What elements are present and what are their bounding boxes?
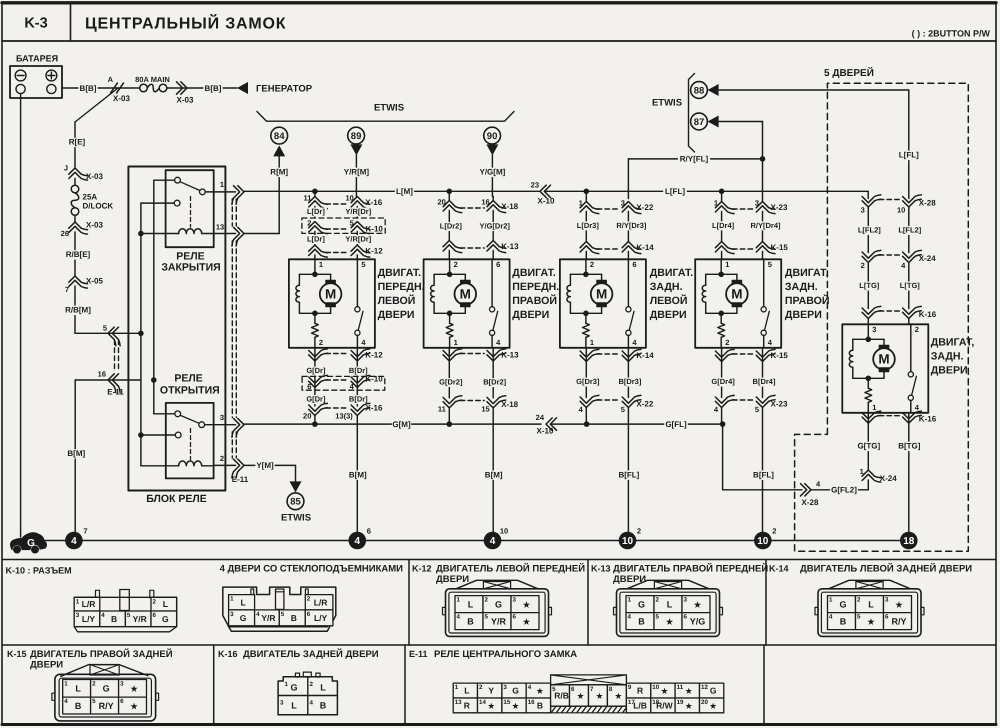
node 84 <box>271 127 288 144</box>
svg-text:ДВИГАТЕЛЬ ЛЕВОЙ ПЕРЕДНЕЙ: ДВИГАТЕЛЬ ЛЕВОЙ ПЕРЕДНЕЙ <box>436 563 585 575</box>
K-15 connector drawing <box>61 665 148 677</box>
svg-text:R/Y[FL]: R/Y[FL] <box>680 155 709 164</box>
node 88 <box>691 82 708 99</box>
page border right <box>995 41 997 725</box>
connector E-11 pin 2 <box>214 464 236 466</box>
connector K-16 top <box>862 311 881 319</box>
svg-text:R[E]: R[E] <box>69 138 86 147</box>
wire label R[M] <box>270 168 289 178</box>
svg-text:ГЕНЕРАТОР: ГЕНЕРАТОР <box>256 84 313 95</box>
svg-text:1: 1 <box>725 260 729 269</box>
svg-text:L/B: L/B <box>633 700 647 710</box>
fuse 25A D/LOCK <box>71 185 79 193</box>
svg-text:G[Dr3]: G[Dr3] <box>576 377 600 386</box>
svg-text:ДВИГАТЕЛЬ ЗАДНЕЙ ДВЕРИ: ДВИГАТЕЛЬ ЗАДНЕЙ ДВЕРИ <box>243 648 379 660</box>
page border left <box>1 41 3 725</box>
svg-text:3: 3 <box>885 597 889 604</box>
wire labels G[Dr] B[Dr] upper <box>314 361 316 376</box>
svg-text:1: 1 <box>579 199 583 208</box>
svg-text:5: 5 <box>127 612 131 619</box>
svg-text:3: 3 <box>120 681 124 688</box>
relay opening switch <box>154 413 175 415</box>
svg-text:L: L <box>240 597 245 607</box>
wire G[FL] bus <box>551 423 723 425</box>
svg-text:X-16: X-16 <box>366 404 383 413</box>
svg-text:L[FL]: L[FL] <box>665 187 685 196</box>
svg-text:K-12: K-12 <box>412 564 432 574</box>
wire labels L[TG] <box>867 263 869 309</box>
connector X-18 bottom <box>443 400 462 408</box>
node 89 <box>348 127 365 144</box>
connector K-15 bottom <box>721 348 723 362</box>
svg-text:ДВИГАТЕЛЬ ПРАВОЙ ЗАДНЕЙ: ДВИГАТЕЛЬ ПРАВОЙ ЗАДНЕЙ <box>30 648 173 660</box>
wire labels G[Dr3] B[Dr3] <box>585 362 587 398</box>
fuse 80A MAIN <box>140 84 148 92</box>
svg-text:5: 5 <box>656 614 660 621</box>
svg-text:L: L <box>468 599 474 609</box>
svg-text:84: 84 <box>274 131 285 142</box>
svg-text:K-10: K-10 <box>366 225 384 234</box>
wire motor3 left to G[FL] <box>585 408 587 425</box>
E-11 connector drawing <box>551 675 627 685</box>
svg-text:ЛЕВОЙ: ЛЕВОЙ <box>650 294 688 307</box>
connector X-03 (right of fuse) <box>181 82 187 94</box>
connector X-24 pin 1 <box>862 470 881 478</box>
svg-text:R/Y: R/Y <box>891 616 906 626</box>
connector K-13 top <box>443 241 462 249</box>
connector K-10 box upper <box>302 218 385 233</box>
wire label R/B[E] <box>74 246 76 262</box>
wire L[FL] bus <box>545 190 868 192</box>
connector K-15 top <box>715 242 734 250</box>
connector K-12 top <box>309 245 328 253</box>
svg-text:ETWIS: ETWIS <box>281 513 311 524</box>
svg-text:ЗАДН.: ЗАДН. <box>650 281 683 293</box>
svg-text:3: 3 <box>220 413 224 422</box>
svg-text:4: 4 <box>528 684 532 691</box>
svg-text:B[M]: B[M] <box>485 470 503 479</box>
svg-text:3: 3 <box>280 700 284 707</box>
svg-text:★: ★ <box>577 692 584 701</box>
svg-text:11: 11 <box>677 684 684 691</box>
svg-text:ДВИГАТ.: ДВИГАТ. <box>650 267 694 279</box>
K-16 connector drawing <box>295 673 299 677</box>
svg-text:24: 24 <box>536 413 545 422</box>
svg-text:РЕЛЕ ЦЕНТРАЛЬНОГО ЗАМКА: РЕЛЕ ЦЕНТРАЛЬНОГО ЗАМКА <box>434 649 577 660</box>
svg-text:23: 23 <box>531 180 539 189</box>
svg-text:B: B <box>75 701 82 711</box>
svg-text:B[M]: B[M] <box>67 449 85 458</box>
title block frame <box>2 1 996 4</box>
connector E-11 pin 1 <box>214 191 236 193</box>
svg-text:★: ★ <box>895 600 903 609</box>
svg-text:2: 2 <box>637 527 641 536</box>
svg-text:89: 89 <box>351 131 362 142</box>
svg-text:88: 88 <box>694 85 705 96</box>
wire B[FL] motor4 to ground <box>762 408 764 532</box>
svg-text:ДВИГАТ.: ДВИГАТ. <box>785 267 829 279</box>
svg-text:M: M <box>325 286 336 301</box>
wire R/B[M] to relay block pin 5 <box>75 332 141 334</box>
svg-text:L[FL]: L[FL] <box>899 151 919 160</box>
svg-text:БАТАРЕЯ: БАТАРЕЯ <box>16 54 58 64</box>
svg-text:ПЕРЕДН.: ПЕРЕДН. <box>512 281 559 293</box>
svg-text:K-12: K-12 <box>365 247 383 256</box>
connector E-11 dashes left <box>114 340 116 371</box>
svg-text:B[Dr]: B[Dr] <box>349 395 368 404</box>
wire B[B] battery to fuse <box>62 87 140 89</box>
svg-text:L: L <box>667 599 673 609</box>
svg-text:K-10: K-10 <box>365 375 383 384</box>
svg-text:E-11: E-11 <box>409 649 428 659</box>
svg-text:5: 5 <box>857 614 861 621</box>
svg-text:K-3: K-3 <box>24 16 47 32</box>
ground 10-2 right <box>754 532 772 550</box>
svg-text:ДВИГАТ.: ДВИГАТ. <box>378 267 422 279</box>
relay closing switch <box>154 179 175 181</box>
wire labels L[Dr3] R/Y[Dr3] <box>585 212 587 242</box>
svg-text:R/W: R/W <box>656 700 674 710</box>
connector E-11 pin 16 (chevron) <box>108 374 116 393</box>
svg-text:★: ★ <box>615 692 622 701</box>
svg-text:B[M]: B[M] <box>349 470 367 479</box>
svg-text:J: J <box>64 164 68 173</box>
connector K-13 bottom <box>448 348 450 361</box>
svg-text:3: 3 <box>684 597 688 604</box>
svg-text:10: 10 <box>652 684 659 691</box>
svg-text:1: 1 <box>454 338 458 347</box>
ground 4-6 <box>349 532 367 550</box>
svg-text:1: 1 <box>714 199 718 208</box>
svg-text:R/Y: R/Y <box>99 701 114 711</box>
wire labels G[Dr4] B[Dr4] <box>721 362 723 398</box>
svg-text:L/Y: L/Y <box>314 613 328 623</box>
svg-text:R: R <box>637 686 643 696</box>
svg-text:X-22: X-22 <box>636 400 653 409</box>
svg-text:6: 6 <box>513 614 517 621</box>
connector E-11 dashes right 1 <box>231 199 233 226</box>
K-13 connector drawing <box>627 580 709 589</box>
svg-text:16: 16 <box>481 198 489 207</box>
svg-text:ДВЕРИ: ДВЕРИ <box>931 364 968 376</box>
svg-text:2: 2 <box>307 218 311 227</box>
wire G[TG] <box>867 423 869 470</box>
svg-text:2: 2 <box>861 261 865 270</box>
svg-text:★: ★ <box>666 617 674 626</box>
svg-text:ПЕРЕДН.: ПЕРЕДН. <box>378 281 425 293</box>
svg-text:K-16: K-16 <box>218 649 238 659</box>
svg-text:G[FL]: G[FL] <box>665 420 687 429</box>
svg-text:Y/R[Dr]: Y/R[Dr] <box>345 207 371 216</box>
svg-text:★: ★ <box>537 687 544 696</box>
K-10 connector view B <box>223 587 336 631</box>
wire motor1 left drop <box>314 191 316 196</box>
svg-text:1: 1 <box>590 338 594 347</box>
wire G[M] bus <box>244 423 541 425</box>
svg-text:L[Dr2]: L[Dr2] <box>440 222 463 231</box>
svg-text:БЛОК РЕЛЕ: БЛОК РЕЛЕ <box>146 493 207 505</box>
svg-text:B[Dr4]: B[Dr4] <box>753 377 776 386</box>
svg-text:ДВЕРИ: ДВЕРИ <box>436 574 469 585</box>
svg-text:10: 10 <box>345 194 353 203</box>
svg-text:X-28: X-28 <box>802 498 819 507</box>
svg-text:4: 4 <box>64 698 68 705</box>
svg-text:1: 1 <box>872 403 876 412</box>
svg-text:K-14: K-14 <box>636 351 654 360</box>
relay closing control contact <box>141 202 174 204</box>
svg-text:РЕЛЕ: РЕЛЕ <box>174 373 202 385</box>
svg-text:16: 16 <box>528 699 535 706</box>
svg-text:L: L <box>464 686 469 696</box>
svg-text:L/Y: L/Y <box>82 614 96 624</box>
relay opening control contact <box>141 434 175 436</box>
svg-text:2: 2 <box>307 596 311 603</box>
svg-text:4: 4 <box>457 614 461 621</box>
svg-text:2: 2 <box>220 454 224 463</box>
connector X-16 top <box>309 197 328 205</box>
svg-text:6: 6 <box>367 527 371 536</box>
svg-text:4: 4 <box>310 700 314 707</box>
relay closing coil <box>141 233 179 235</box>
net common vertical (x141) <box>140 203 142 466</box>
svg-text:K-15: K-15 <box>771 243 789 252</box>
svg-text:X-18: X-18 <box>501 202 518 211</box>
svg-text:K-15: K-15 <box>771 351 789 360</box>
svg-text:5: 5 <box>768 260 772 269</box>
page border bottom <box>2 723 996 726</box>
svg-text:2: 2 <box>310 681 314 688</box>
relay opening plunger (dashed) <box>190 429 192 460</box>
svg-text:5 ДВЕРЕЙ: 5 ДВЕРЕЙ <box>824 66 874 79</box>
arrow from 90 <box>491 143 493 146</box>
svg-text:X-22: X-22 <box>636 203 653 212</box>
K-14 connector drawing <box>829 580 911 589</box>
svg-text:★: ★ <box>523 617 531 626</box>
svg-text:X-24: X-24 <box>880 474 897 483</box>
wire motor2 left drop <box>448 191 450 200</box>
svg-text:B: B <box>111 614 117 624</box>
relay opening box <box>166 403 214 479</box>
svg-text:G[TG]: G[TG] <box>857 442 880 451</box>
svg-text:12: 12 <box>701 684 708 691</box>
svg-text:Y/G[M]: Y/G[M] <box>480 168 506 177</box>
svg-text:ДВЕРИ: ДВЕРИ <box>650 309 687 321</box>
svg-text:X-05: X-05 <box>86 277 103 286</box>
svg-text:6: 6 <box>120 698 124 705</box>
svg-text:14: 14 <box>479 699 486 706</box>
wire labels L[Dr4] R/Y[Dr4] <box>721 212 723 242</box>
svg-text:X-03: X-03 <box>86 221 103 230</box>
svg-text:2: 2 <box>590 260 594 269</box>
svg-text:Y: Y <box>488 686 494 696</box>
svg-text:L: L <box>291 701 297 711</box>
svg-text:18: 18 <box>903 536 915 547</box>
connector X-18 top <box>443 201 462 209</box>
svg-text:L/R: L/R <box>314 597 328 607</box>
svg-text:13: 13 <box>455 699 462 706</box>
svg-text:L[TG]: L[TG] <box>900 281 920 290</box>
svg-text:★: ★ <box>694 600 702 609</box>
svg-text:Y/G[Dr2]: Y/G[Dr2] <box>479 222 510 231</box>
svg-text:G[Dr]: G[Dr] <box>306 366 326 375</box>
svg-text:2: 2 <box>725 338 729 347</box>
svg-text:2: 2 <box>92 681 96 688</box>
svg-text:A: A <box>108 75 114 84</box>
wire B[M] motor1 to ground <box>356 416 358 532</box>
K-10 connector view A <box>96 590 100 598</box>
svg-text:★: ★ <box>596 692 603 701</box>
wire R/Y[FL] <box>628 158 762 160</box>
svg-text:X-10: X-10 <box>537 427 554 436</box>
net switch vertical (x154) <box>153 180 155 414</box>
svg-text:87: 87 <box>694 117 705 128</box>
svg-text:R/B: R/B <box>554 691 569 701</box>
svg-text:( ) : 2BUTTON P/W: ( ) : 2BUTTON P/W <box>912 29 991 39</box>
svg-text:Y/R[M]: Y/R[M] <box>344 168 370 177</box>
svg-text:G: G <box>240 613 247 623</box>
svg-text:★: ★ <box>523 600 531 609</box>
svg-text:G: G <box>638 599 645 609</box>
wire motor3 left drop <box>585 191 587 201</box>
svg-text:ПРАВОЙ: ПРАВОЙ <box>785 294 830 307</box>
svg-text:Y/R: Y/R <box>133 614 147 624</box>
motor M2 front right door <box>424 259 510 348</box>
wire labels L[Dr] Y/R[Dr] lower <box>314 232 316 246</box>
svg-text:K-14: K-14 <box>636 243 654 252</box>
svg-text:B[FL]: B[FL] <box>753 470 774 479</box>
svg-text:25A: 25A <box>83 193 98 202</box>
wire B[M] motor2 to ground <box>492 408 494 532</box>
svg-text:3: 3 <box>861 206 865 215</box>
svg-text:ЛЕВОЙ: ЛЕВОЙ <box>378 294 416 307</box>
svg-text:B: B <box>840 616 847 626</box>
wire branch diagonal to R[E] <box>75 88 118 122</box>
svg-text:16: 16 <box>98 369 106 378</box>
svg-text:ДВЕРИ: ДВЕРИ <box>30 660 63 671</box>
svg-text:★: ★ <box>867 617 875 626</box>
connector X-03 pin A (slashes) <box>111 83 118 93</box>
svg-text:L/R: L/R <box>82 599 96 609</box>
svg-text:L: L <box>75 684 81 694</box>
ground 10-2 left <box>619 532 637 550</box>
wire label Y/R[M] <box>342 168 370 178</box>
svg-text:R/Y[Dr4]: R/Y[Dr4] <box>750 221 781 230</box>
svg-text:1: 1 <box>285 681 289 688</box>
svg-text:Y/R[Dr]: Y/R[Dr] <box>345 235 371 244</box>
svg-text:B: B <box>320 701 327 711</box>
svg-text:L[Dr]: L[Dr] <box>307 235 325 244</box>
svg-text:2: 2 <box>485 597 489 604</box>
svg-text:M: M <box>731 286 742 301</box>
car body ground icon <box>11 533 47 550</box>
connector E-11 dashes right 2 <box>231 241 233 418</box>
svg-text:X-03: X-03 <box>113 94 130 103</box>
battery BATT <box>10 66 62 98</box>
svg-text:L: L <box>868 599 874 609</box>
svg-text:19: 19 <box>677 699 684 706</box>
svg-text:★: ★ <box>710 701 717 710</box>
wire labels L[FL2] <box>867 207 869 253</box>
svg-text:R[M]: R[M] <box>270 168 288 177</box>
svg-text:85: 85 <box>290 497 301 508</box>
ETWIS bracket top <box>257 112 514 122</box>
svg-text:9: 9 <box>628 684 632 691</box>
svg-text:1: 1 <box>829 597 833 604</box>
wire label R[E] <box>67 138 86 148</box>
svg-text:K-13: K-13 <box>501 351 519 360</box>
svg-text:G: G <box>27 538 35 549</box>
svg-text:G[FL2]: G[FL2] <box>831 486 857 495</box>
svg-text:7: 7 <box>590 686 594 693</box>
svg-text:R/Y[Dr3]: R/Y[Dr3] <box>616 221 647 230</box>
svg-text:K-16: K-16 <box>919 415 937 424</box>
ground 4-7 <box>65 532 83 550</box>
svg-text:4: 4 <box>829 614 833 621</box>
svg-text:K-12: K-12 <box>365 351 383 360</box>
connector X-16 bottom <box>309 408 328 416</box>
svg-text:5: 5 <box>92 698 96 705</box>
svg-text:6: 6 <box>307 382 311 391</box>
svg-text:★: ★ <box>512 701 519 710</box>
svg-text:G: G <box>290 683 297 693</box>
connector E-11 pin 13 <box>214 233 236 235</box>
connector E-11 pin 5 (chevron) <box>108 327 116 346</box>
svg-text:ДВИГАТЕЛЬ ПРАВОЙ ПЕРЕДНЕЙ: ДВИГАТЕЛЬ ПРАВОЙ ПЕРЕДНЕЙ <box>613 563 768 575</box>
svg-text:ETWIS: ETWIS <box>652 98 682 109</box>
svg-text:1: 1 <box>64 681 68 688</box>
svg-text:L[Dr3]: L[Dr3] <box>577 221 600 230</box>
arrow to 87 <box>708 116 719 128</box>
svg-text:Y/G: Y/G <box>690 616 706 626</box>
connector X-10 pin 23 <box>540 185 546 197</box>
connector X-03 pin J <box>74 155 76 168</box>
svg-text:6: 6 <box>496 260 500 269</box>
svg-text:X-23: X-23 <box>771 203 788 212</box>
svg-text:ДВИГАТЕЛЬ ЛЕВОЙ ЗАДНЕЙ ДВЕРИ: ДВИГАТЕЛЬ ЛЕВОЙ ЗАДНЕЙ ДВЕРИ <box>800 563 972 575</box>
svg-text:6: 6 <box>632 260 636 269</box>
svg-text:4 ДВЕРИ СО СТЕКЛОПОДЪЕМНИКАМИ: 4 ДВЕРИ СО СТЕКЛОПОДЪЕМНИКАМИ <box>220 564 404 575</box>
svg-text:4: 4 <box>628 614 632 621</box>
svg-text:6: 6 <box>684 614 688 621</box>
motor M4 rear right door <box>695 259 781 348</box>
svg-text:K-16: K-16 <box>919 310 937 319</box>
svg-text:ДВИГАТ.: ДВИГАТ. <box>512 267 556 279</box>
svg-text:7: 7 <box>65 285 69 294</box>
svg-text:ЗАКРЫТИЯ: ЗАКРЫТИЯ <box>161 262 220 274</box>
svg-text:ЗАДН.: ЗАДН. <box>785 281 818 293</box>
svg-text:1: 1 <box>455 684 459 691</box>
wire battery to ground (left) <box>20 94 22 537</box>
relay closing plunger (dashed) <box>190 197 192 228</box>
generator arrow <box>237 82 248 94</box>
ETWIS bracket right <box>689 74 695 153</box>
wire pin16 to B[M] <box>75 379 141 381</box>
svg-text:3: 3 <box>513 597 517 604</box>
wire motor2 left to G[M] <box>448 408 450 424</box>
svg-text:4: 4 <box>355 536 361 547</box>
ground 4-10 <box>484 532 502 550</box>
connector X-28 pair <box>862 199 881 207</box>
svg-text:B[Dr2]: B[Dr2] <box>483 378 506 387</box>
svg-text:1: 1 <box>628 597 632 604</box>
motor M1 front left door <box>289 259 375 348</box>
svg-text:2: 2 <box>915 325 919 334</box>
svg-text:3: 3 <box>230 611 234 618</box>
connector X-10 pin 24 <box>546 418 552 430</box>
svg-text:ЗАДН.: ЗАДН. <box>931 350 964 362</box>
svg-text:20: 20 <box>303 412 311 421</box>
svg-text:X-10: X-10 <box>538 197 555 206</box>
